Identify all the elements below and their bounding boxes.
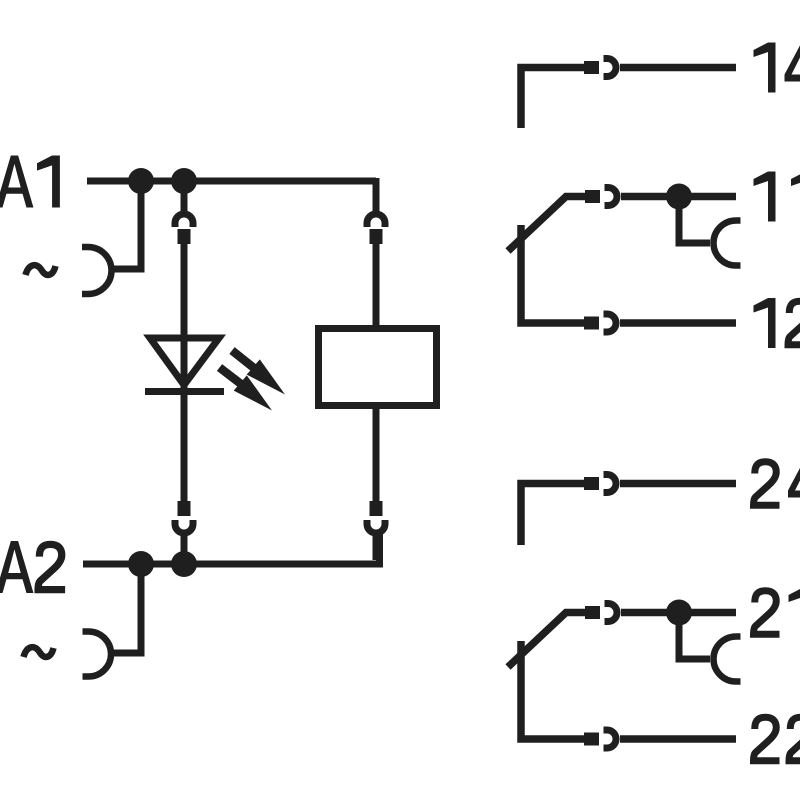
wire to terminal 14: [620, 64, 736, 72]
node junction dot 3 on A2: [128, 551, 154, 577]
node junction dot 2 on A1: [171, 168, 197, 194]
wire to terminal 21: [621, 609, 736, 617]
wire NO contact 14 lead: [521, 68, 584, 129]
label A2: [0, 541, 65, 593]
wire 11 drop to socket: [679, 193, 710, 243]
plug square, contact 22: [584, 733, 599, 746]
plug square of plug-in connection, coil bottom: [370, 501, 383, 516]
LED light arrow 2: [220, 368, 273, 411]
label 11: [754, 172, 800, 222]
socket arc, contact 21: [605, 604, 618, 622]
label 12: [754, 298, 800, 348]
wire stub coil to A2: [373, 534, 380, 560]
plug square of plug-in connection, LED branch top: [178, 229, 191, 244]
LED D1 triangle (anode): [150, 338, 219, 385]
wire to terminal 11: [621, 193, 736, 201]
wire coil branch from A1: [373, 178, 377, 212]
label A1: [0, 156, 60, 208]
wire A1 drop to socket: [111, 178, 141, 269]
socket arc of plug-in connection, coil top: [367, 214, 385, 227]
LED D1 cathode bar: [145, 388, 224, 395]
plug square, contact 12: [584, 317, 599, 330]
plug square, contact 21: [585, 606, 600, 619]
plug square of plug-in connection, LED branch bottom: [178, 501, 191, 516]
switch arm, changeover contact top (common 11): [508, 197, 585, 252]
wire A1 horizontal: [87, 178, 376, 185]
node junction dot on 11: [666, 184, 692, 210]
switch arm, changeover contact bottom (common 21): [508, 613, 585, 668]
wire coil bottom lead: [373, 406, 380, 501]
wire A2 horizontal: [83, 534, 380, 564]
wire A2 drop to socket: [111, 561, 141, 653]
wire stub from dot2 down: [181, 190, 188, 212]
wire NC contact 22 lead: [521, 641, 584, 739]
node junction dot on 21: [666, 600, 692, 626]
socket arc of plug-in connection, coil bottom: [367, 520, 385, 533]
socket arc 21 external terminal: [714, 637, 741, 682]
label 21: [754, 588, 800, 638]
label 22: [754, 717, 800, 761]
plug square, contact 11: [585, 190, 600, 203]
relay coil K1: [319, 329, 437, 406]
wire to terminal 24: [620, 480, 736, 488]
AC tilde near A2: [24, 647, 54, 657]
wire coil top lead: [373, 244, 380, 328]
plug square of plug-in connection, coil top: [370, 229, 383, 244]
LED light arrow 1: [232, 351, 285, 395]
plug square, contact 24: [584, 477, 599, 490]
socket arc of plug-in connection, LED branch bottom: [175, 520, 193, 533]
socket arc, contact 11: [605, 188, 618, 206]
socket arc A1 external terminal: [82, 247, 111, 294]
AC tilde near A1: [26, 265, 56, 275]
socket arc, contact 22: [604, 730, 617, 748]
wire to terminal 12: [620, 319, 736, 327]
socket arc, contact 14: [604, 59, 617, 77]
label 14: [754, 43, 800, 93]
socket arc of plug-in connection, LED branch top: [175, 214, 193, 227]
label 24: [754, 459, 800, 509]
socket arc, contact 24: [604, 475, 617, 493]
socket arc 11 external terminal: [714, 221, 741, 266]
node junction dot 1 on A1: [128, 168, 154, 194]
wire NC contact 12 lead: [521, 225, 584, 323]
socket arc A2 external terminal: [83, 632, 112, 677]
socket arc, contact 12: [604, 314, 617, 332]
wire to terminal 22: [620, 735, 736, 743]
wire 21 drop to socket: [679, 609, 710, 659]
wire LED branch upper: [181, 244, 188, 501]
plug square, contact 14: [584, 61, 599, 74]
node junction dot 4 on A2: [171, 551, 197, 577]
wire NO contact 24 lead: [521, 484, 584, 546]
wire stub to A2: [181, 534, 188, 556]
